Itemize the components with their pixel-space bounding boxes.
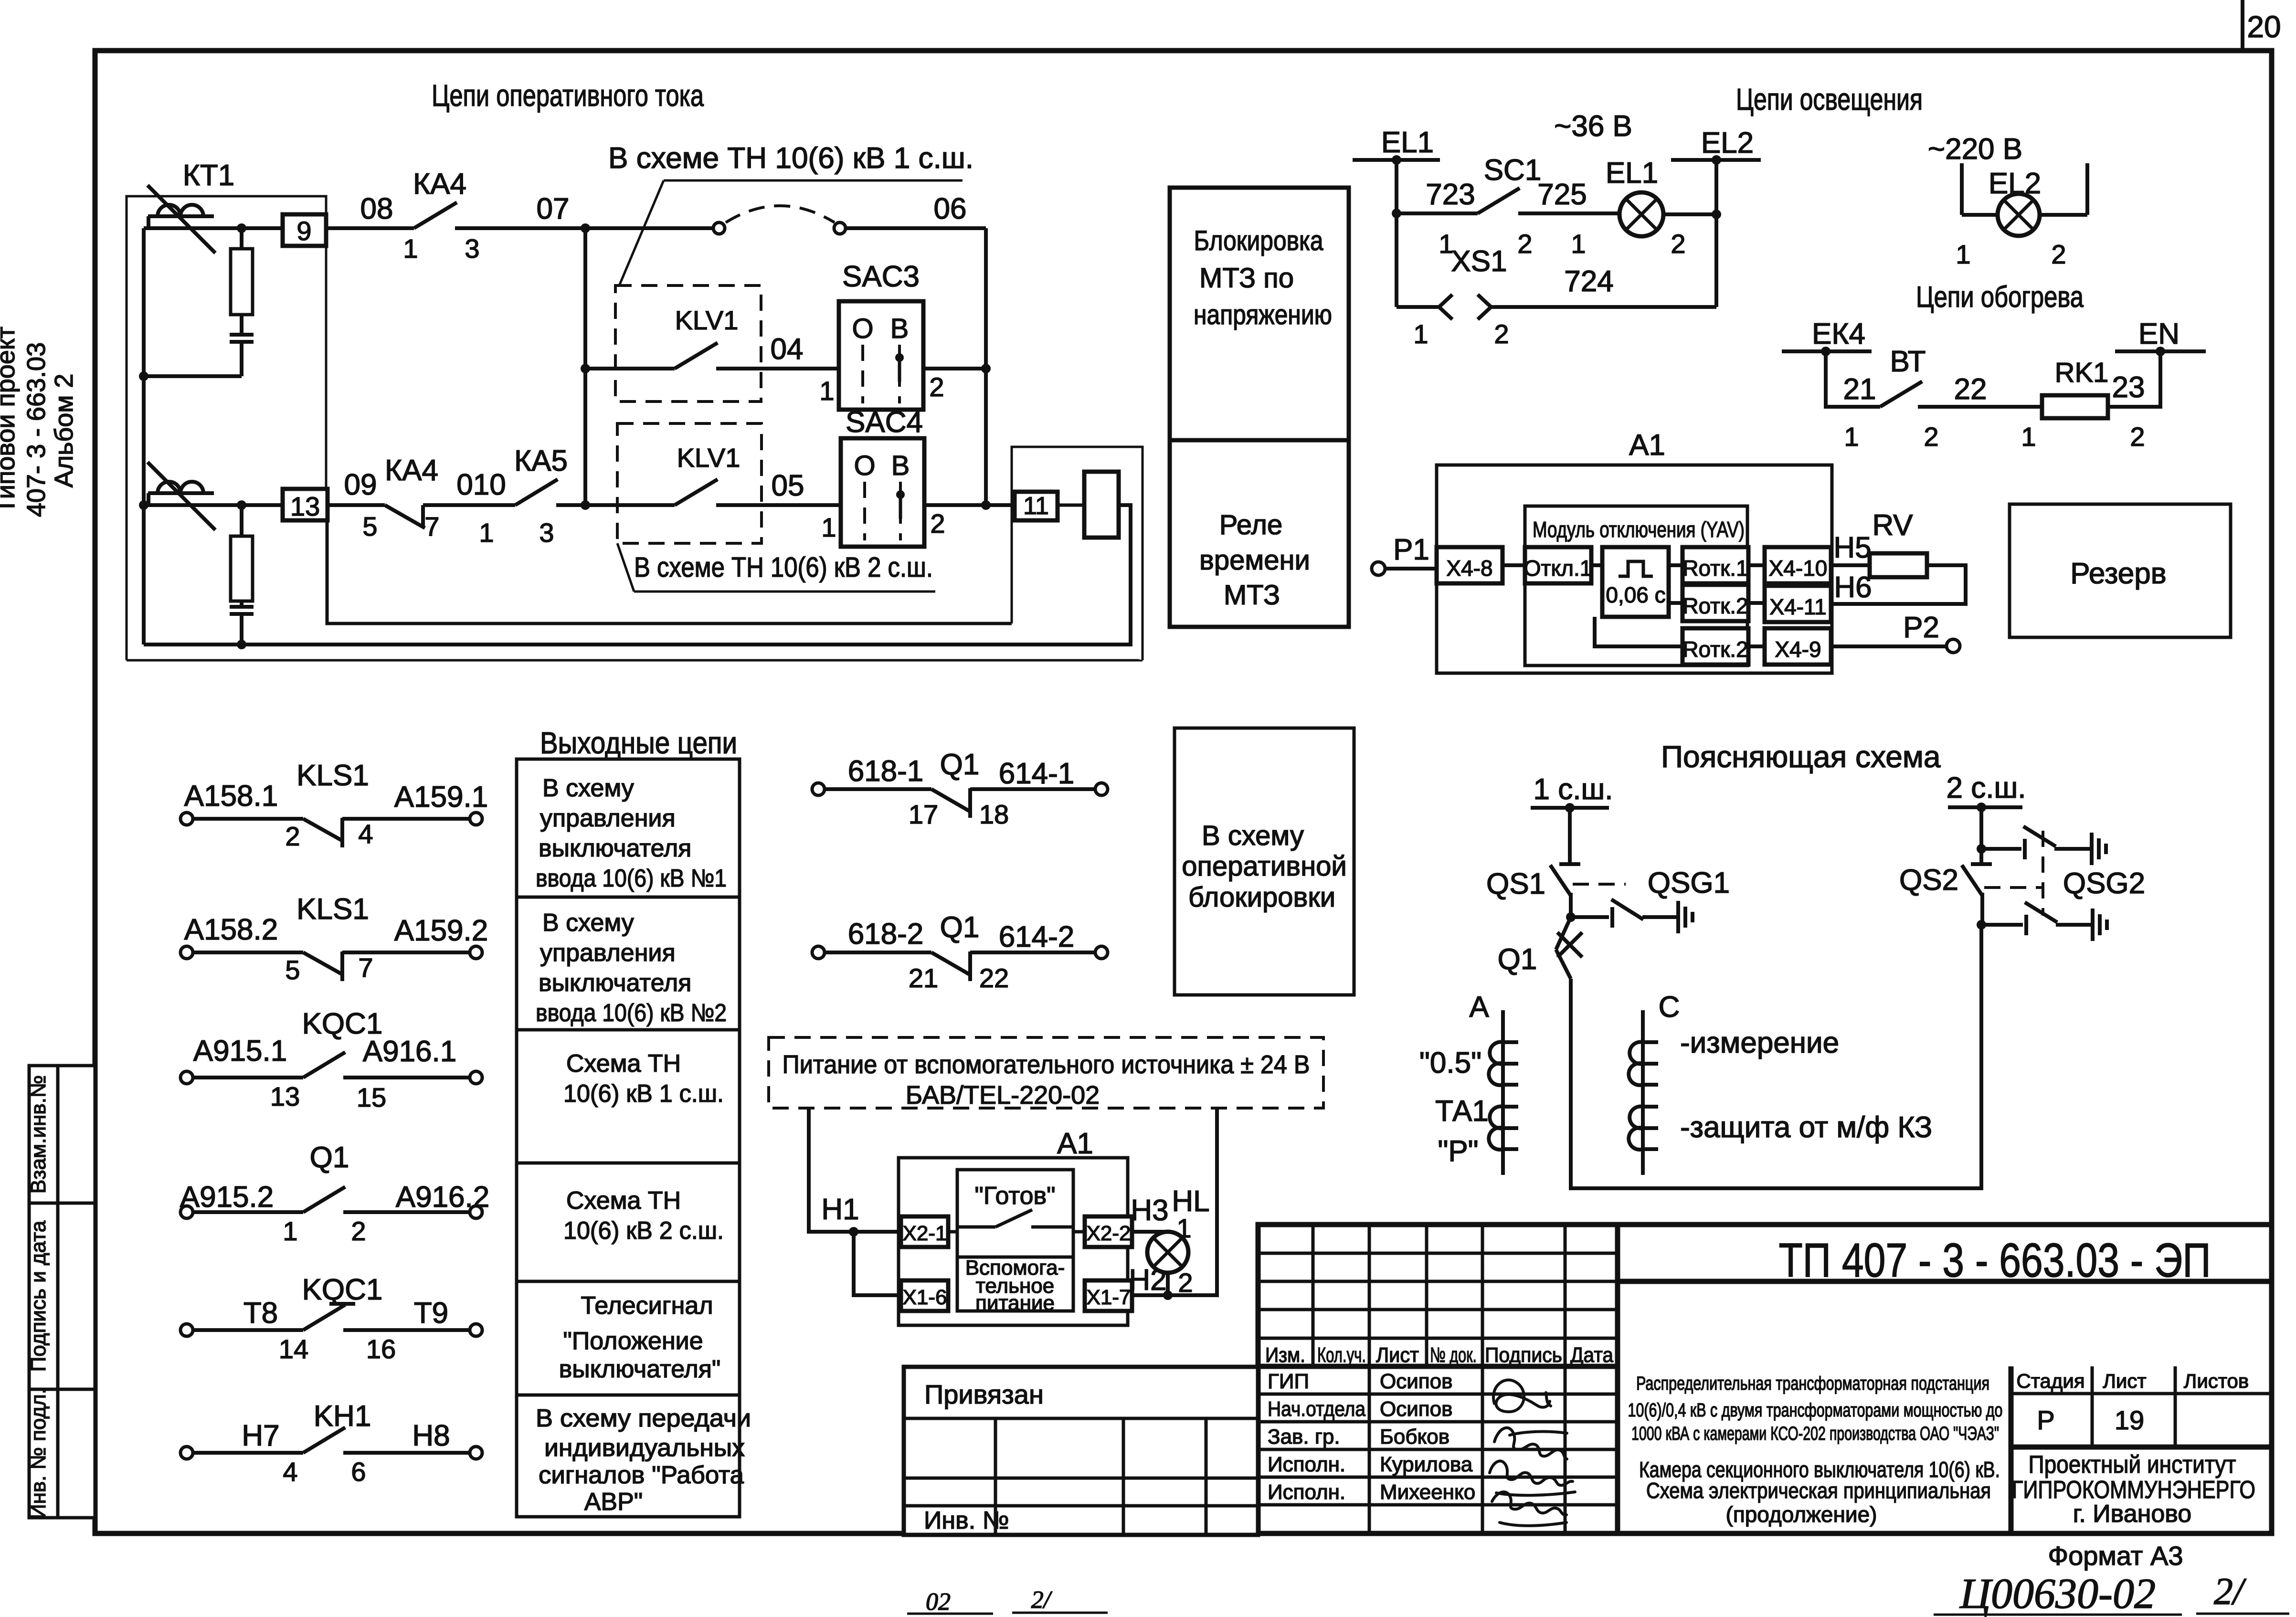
wire CT2 to terminal 13 (144, 503, 283, 507)
capacitor C of CT2 burden (230, 601, 254, 645)
svg-text:KLV1: KLV1 (677, 443, 741, 473)
terminal box Х1-7 (1085, 1280, 1132, 1311)
svg-text:2: 2 (1494, 319, 1509, 349)
svg-text:Осипов: Осипов (1380, 1397, 1452, 1421)
svg-text:22: 22 (979, 963, 1009, 993)
svg-text:Ц00630-02: Ц00630-02 (1959, 1570, 2156, 1617)
svg-text:19: 19 (2115, 1405, 2144, 1435)
svg-text:Проектный институт: Проектный институт (2029, 1451, 2236, 1479)
svg-text:010: 010 (456, 468, 506, 501)
svg-text:А158.1: А158.1 (184, 780, 278, 813)
svg-text:№ док.: № док. (1430, 1343, 1477, 1367)
rotated side text Альбом 2 (50, 374, 78, 488)
svg-text:А1: А1 (1629, 429, 1665, 462)
svg-text:1000 кВА с камерами КСО-202 пр: 1000 кВА с камерами КСО-202 производства… (1631, 1423, 1999, 1444)
svg-text:Н1: Н1 (821, 1193, 859, 1226)
svg-text:Rотк.2: Rотк.2 (1682, 637, 1748, 662)
contact KLV1 (row 05) (675, 443, 841, 505)
stage table Стадия Лист Листов (2011, 1366, 2272, 1533)
svg-text:А915.2: А915.2 (180, 1181, 274, 1214)
svg-text:5: 5 (285, 955, 300, 985)
svg-text:С: С (1659, 991, 1680, 1024)
svg-text:"Готов": "Готов" (974, 1182, 1055, 1210)
svg-text:блокировки: блокировки (1188, 882, 1335, 913)
lamp EL2 circuit (1956, 163, 2087, 269)
svg-text:КА4: КА4 (385, 454, 438, 487)
bus 2 с.ш. (1947, 772, 2026, 812)
lamp HL (1147, 1232, 1188, 1273)
wire right bus vertical 06 (984, 228, 988, 505)
changeover switch SAC4 (821, 406, 945, 547)
signature Михеенко (1492, 1492, 1566, 1526)
svg-text:~36 В: ~36 В (1554, 110, 1632, 143)
heater resistor RK1 (2021, 357, 2145, 452)
svg-text:А159.2: А159.2 (394, 914, 488, 947)
wire terminal 9 to KA4 (326, 226, 414, 230)
svg-text:2: 2 (1671, 229, 1685, 259)
svg-text:Rотк.1: Rотк.1 (1682, 556, 1748, 581)
wire bus1 down (1568, 808, 1572, 862)
contact KQC1 row (13-15) (180, 1007, 482, 1112)
dashed jumper arc (726, 206, 835, 222)
svg-text:1: 1 (1413, 319, 1428, 349)
svg-text:ВТ: ВТ (1890, 345, 1926, 378)
node EK4 bus (1782, 317, 1872, 356)
svg-text:Схема электрическая принципиал: Схема электрическая принципиальная (1646, 1478, 1991, 1503)
svg-text:А915.1: А915.1 (193, 1035, 287, 1067)
box2 text В схему управления выключателя ввода №2 (536, 909, 727, 1027)
node CT1 loop on left vertical (139, 371, 148, 381)
inner box Модуль отключения (YAV) (1525, 506, 1747, 666)
svg-text:16: 16 (366, 1334, 396, 1364)
svg-text:Q1: Q1 (1498, 943, 1537, 976)
svg-text:Формат А3: Формат А3 (2048, 1541, 2183, 1571)
wire lamp to Х1-7 (1132, 1293, 1168, 1297)
svg-text:Распределительная трансформато: Распределительная трансформаторная подст… (1636, 1373, 1989, 1394)
ground symbol QSG2 lower (2093, 909, 2107, 941)
svg-text:20: 20 (2247, 10, 2281, 44)
node EN bus (2115, 317, 2206, 356)
svg-text:Курилова: Курилова (1380, 1453, 1473, 1476)
node CT2 on left vertical (139, 500, 148, 510)
svg-text:А916.2: А916.2 (396, 1181, 490, 1214)
svg-text:(продолжение): (продолжение) (1726, 1502, 1877, 1527)
svg-text:выключателя: выключателя (539, 969, 691, 997)
svg-text:0,06 с: 0,06 с (1606, 582, 1665, 607)
svg-text:~220 В: ~220 В (1928, 133, 2022, 166)
svg-text:А1: А1 (1057, 1127, 1093, 1160)
terminal box 13 (283, 489, 328, 521)
svg-text:Н3: Н3 (1131, 1194, 1168, 1227)
wire lamp HL bottom row (1166, 1273, 1170, 1295)
svg-text:Rотк.2: Rотк.2 (1682, 593, 1748, 618)
contact Q1 (618-1/614-1) (812, 748, 1108, 829)
contact KH1 row (H7-H8) (180, 1400, 482, 1487)
wire loop to lower Rотк.2 (1595, 617, 1682, 646)
terminal Р1 (1372, 533, 1437, 575)
svg-text:1: 1 (479, 518, 494, 548)
resistor R of CT2 burden (231, 505, 253, 601)
staff name labels (1380, 1370, 1475, 1504)
svg-text:А: А (1469, 991, 1489, 1024)
resistor R of CT1 burden (231, 228, 253, 315)
svg-text:Дата: Дата (1570, 1343, 1613, 1367)
svg-text:618-1: 618-1 (848, 755, 924, 788)
svg-text:ГИП: ГИП (1268, 1370, 1309, 1393)
staff role labels (1268, 1370, 1365, 1504)
svg-text:Цепи оперативного тока: Цепи оперативного тока (432, 78, 704, 113)
svg-text:1: 1 (1844, 422, 1859, 452)
svg-text:1: 1 (819, 376, 834, 406)
rotated label Инв. № подл. (27, 1388, 50, 1519)
svg-text:КТ1: КТ1 (183, 159, 234, 192)
svg-text:напряжению: напряжению (1194, 299, 1332, 330)
current transformer ТА1 phase А (1489, 1010, 1518, 1175)
revision header labels (1265, 1343, 1613, 1367)
dashed box KLV1 lower (617, 423, 762, 543)
svg-text:управления: управления (540, 804, 676, 832)
node SAC4 output (981, 500, 991, 510)
svg-text:2: 2 (351, 1216, 366, 1246)
svg-text:В схему: В схему (1202, 820, 1304, 851)
svg-text:6: 6 (351, 1457, 366, 1487)
terminal box Откл.1 (1524, 547, 1592, 583)
svg-text:14: 14 (279, 1334, 308, 1364)
svg-text:KH1: KH1 (314, 1400, 371, 1433)
terminal box Х4-8 (1437, 547, 1502, 583)
svg-text:Исполн.: Исполн. (1268, 1453, 1345, 1476)
dashed link QS1-QSG1 (1573, 883, 1626, 886)
wire CT1 loop bottom (144, 374, 242, 378)
svg-text:В: В (890, 313, 909, 344)
contact KA4 (upper row) (403, 168, 585, 264)
function box В схему оперативной блокировки (1174, 728, 1354, 995)
svg-text:КА5: КА5 (514, 444, 568, 477)
svg-text:Кол.уч.: Кол.уч. (1317, 1343, 1366, 1367)
svg-text:5: 5 (362, 511, 377, 541)
svg-text:Подпись: Подпись (1485, 1343, 1562, 1367)
svg-text:23: 23 (2112, 371, 2145, 404)
wire CT1 to terminal 9 (144, 226, 283, 230)
svg-text:02: 02 (926, 1588, 951, 1616)
svg-text:В схеме ТН 10(6) кВ 1 с.ш.: В схеме ТН 10(6) кВ 1 с.ш. (608, 142, 973, 175)
disconnector QS2 (1899, 864, 1992, 925)
node CT2 chain bottom (237, 640, 246, 649)
wire 07 to jumper (585, 226, 713, 230)
ground symbol QSG1 (1678, 901, 1693, 933)
svg-text:Х4-10: Х4-10 (1769, 556, 1828, 581)
terminal box Х2-2 (1085, 1216, 1132, 1247)
wire to KLV1 contact row 2 (585, 503, 675, 507)
current transformer CT2 (148, 462, 215, 530)
svg-text:Н8: Н8 (412, 1419, 450, 1452)
svg-text:2: 2 (285, 821, 300, 851)
svg-text:О: О (852, 313, 873, 344)
wire H1 drop from supply box (809, 1108, 901, 1232)
svg-text:питание: питание (975, 1291, 1055, 1315)
node CT2 chain top (237, 500, 246, 510)
wire bus2 down (1979, 807, 1983, 862)
contact KQC1 row (T8-T9) (180, 1273, 482, 1364)
wire Rотк.2 to Х4-11 (1748, 601, 1765, 605)
wire terminal 11 to relay coil (1058, 504, 1084, 507)
svg-text:QS2: QS2 (1899, 864, 1958, 897)
svg-text:07: 07 (537, 192, 570, 225)
svg-text:А158.2: А158.2 (184, 913, 278, 946)
svg-text:724: 724 (1564, 265, 1613, 298)
rotated label Подпись и дата (27, 1220, 50, 1372)
resistor box Rотк.2 lower (1682, 628, 1748, 665)
svg-text:Q1: Q1 (940, 748, 980, 781)
relay enclosure box (1012, 447, 1143, 660)
node upper QSG2 branch (1977, 844, 1986, 854)
svg-text:О: О (854, 450, 875, 481)
staff rows grid (1258, 1366, 1618, 1533)
circuit breaker Q1 (1498, 917, 1582, 979)
node CT1 chain top (237, 223, 246, 233)
wire pulse to Rотк.1 (1669, 563, 1682, 567)
reserve box Резерв (2010, 504, 2231, 637)
dashed box KLV1 upper (615, 285, 761, 402)
svg-text:ТП 407 - 3 - 663.03 - ЭП: ТП 407 - 3 - 663.03 - ЭП (1779, 1234, 2211, 1287)
current transformer CT1 (148, 185, 215, 253)
node EL2 drop (1712, 210, 1721, 219)
terminal box 11 (1015, 492, 1058, 520)
svg-text:SAC3: SAC3 (842, 260, 920, 293)
node QS1 bottom (1566, 912, 1576, 922)
svg-text:В схему передачи: В схему передачи (536, 1405, 751, 1432)
svg-text:1: 1 (1571, 229, 1586, 259)
svg-text:Подпись и дата: Подпись и дата (27, 1220, 50, 1372)
svg-text:АВР": АВР" (584, 1488, 643, 1516)
svg-text:"Р": "Р" (1438, 1135, 1478, 1168)
contact KLS1 row 2 (180, 893, 488, 985)
svg-text:Блокировка: Блокировка (1194, 225, 1324, 256)
svg-text:"Положение: "Положение (563, 1327, 703, 1355)
capacitor C of CT1 burden (230, 315, 254, 376)
svg-text:Типовой проект: Типовой проект (0, 327, 20, 514)
svg-text:индивидуальных: индивидуальных (544, 1434, 745, 1462)
handwritten marks bottom left (907, 1586, 1108, 1616)
wire Х4-10 to RV (1831, 563, 1870, 567)
signature Бобков (1494, 1428, 1567, 1459)
sheet number box 20 top right (2243, 0, 2281, 51)
svg-text:времени: времени (1199, 545, 1310, 576)
resistor box Rотк.1 (1682, 547, 1748, 583)
svg-text:выключателя: выключателя (539, 835, 691, 862)
wire RV loop to Х4-11 (1831, 565, 1966, 604)
svg-text:614-1: 614-1 (999, 757, 1075, 790)
svg-text:9: 9 (296, 216, 311, 246)
wire EL1 bus down (1395, 160, 1398, 307)
svg-text:1: 1 (403, 233, 418, 264)
enclosure line from box 13 to relay box (327, 520, 1012, 624)
wire EK4 down (1826, 351, 1880, 407)
wire to SC1 (1397, 211, 1478, 215)
svg-text:МТЗ: МТЗ (1224, 580, 1280, 611)
jumper terminal left (713, 222, 725, 234)
svg-text:Питание от вспомогательного ис: Питание от вспомогательного источника ± … (783, 1050, 1310, 1079)
contact KA5 (479, 444, 585, 548)
svg-text:Лист: Лист (2103, 1370, 2146, 1392)
svg-text:21: 21 (1843, 373, 1876, 406)
earthing switch QSG1 (1571, 867, 1730, 928)
svg-text:7: 7 (424, 511, 439, 541)
wire jumper to 06 corner (846, 226, 986, 230)
svg-text:Зав. гр.: Зав. гр. (1268, 1425, 1340, 1448)
svg-text:2: 2 (2051, 239, 2066, 269)
svg-text:Т8: Т8 (243, 1297, 278, 1330)
wire relay coil return (144, 505, 1131, 645)
project description text (1628, 1373, 2003, 1444)
title block main frame (1258, 1225, 2272, 1533)
svg-text:Взам.инв.№: Взам.инв.№ (27, 1075, 50, 1194)
svg-text:БАВ/TEL-220-02: БАВ/TEL-220-02 (906, 1081, 1100, 1110)
wire SAC3 to right bus (923, 367, 986, 370)
wire XS1 row left (1397, 305, 1439, 309)
svg-text:Выходные цепи: Выходные цепи (540, 726, 737, 760)
svg-text:09: 09 (344, 468, 377, 501)
svg-text:Р: Р (2037, 1405, 2054, 1435)
contact Q1 (618-2/614-2) (812, 911, 1108, 993)
wire XS1 to EL2 drop (1491, 305, 1716, 309)
svg-text:ТА1: ТА1 (1435, 1095, 1489, 1128)
svg-text:3: 3 (465, 233, 479, 264)
node SAC3 output (981, 364, 991, 373)
svg-text:Q1: Q1 (940, 911, 980, 944)
jumper terminal right (834, 222, 846, 234)
svg-text:EL2: EL2 (1701, 127, 1754, 159)
svg-text:EN: EN (2138, 317, 2180, 350)
wire Rотк.1 to Х4-10 (1748, 563, 1765, 567)
wire Q1 down and along bottom (1571, 925, 1981, 1188)
relay coil (1084, 472, 1119, 538)
earthing switch QSG2 lower (1981, 867, 2145, 935)
auxiliary supply box Вспомогательное питание (957, 1256, 1073, 1315)
svg-text:КА4: КА4 (413, 168, 466, 201)
output description column boxes (517, 759, 740, 1517)
box1 text В схему управления выключателя ввода №1 (536, 774, 727, 892)
svg-text:Телесигнал: Телесигнал (581, 1292, 713, 1320)
box4 text Схема ТН 2 с.ш. (563, 1187, 724, 1245)
wire Готов to Х2-2 (1073, 1230, 1085, 1234)
svg-text:Цепи освещения: Цепи освещения (1736, 82, 1923, 116)
node SC1 row (1392, 209, 1401, 218)
disconnector QS1 (1486, 864, 1580, 917)
svg-text:XS1: XS1 (1451, 245, 1507, 278)
handwritten inventory number (1934, 1570, 2289, 1617)
svg-text:15: 15 (357, 1082, 386, 1112)
svg-text:ЕК4: ЕК4 (1812, 317, 1865, 350)
svg-text:KLS1: KLS1 (296, 759, 369, 792)
svg-text:Инв. № подл.: Инв. № подл. (27, 1388, 50, 1519)
svg-text:QS1: QS1 (1486, 867, 1545, 900)
dashed supply box Питание от вспомогательного источника (769, 1037, 1323, 1110)
svg-text:Схема ТН: Схема ТН (566, 1050, 681, 1078)
svg-text:2: 2 (1517, 229, 1532, 259)
long bottom enclosure line (127, 659, 1143, 662)
sheet description text (1639, 1457, 2000, 1527)
rotated side text Типовой проект (0, 327, 20, 514)
svg-text:Схема ТН: Схема ТН (566, 1187, 681, 1215)
svg-text:13: 13 (290, 491, 320, 521)
svg-text:SC1: SC1 (1484, 154, 1542, 187)
changeover switch SAC3 (819, 260, 944, 410)
svg-text:А159.1: А159.1 (394, 781, 488, 814)
svg-text:2 с.ш.: 2 с.ш. (1947, 772, 2026, 804)
svg-text:Х1-7: Х1-7 (1087, 1286, 1131, 1309)
pulse timer block 0,06 с (1602, 547, 1669, 617)
svg-text:Цепи обогрева: Цепи обогрева (1916, 281, 2084, 314)
svg-text:оперативной: оперативной (1182, 851, 1347, 882)
revision table grid (1258, 1225, 2272, 1366)
node KLV1 row 1 (581, 364, 590, 373)
svg-text:1: 1 (821, 512, 836, 542)
svg-text:614-2: 614-2 (999, 920, 1075, 953)
current transformer ТА1 phase С (1629, 1010, 1658, 1175)
svg-text:Привязан: Привязан (924, 1379, 1044, 1409)
wire SAC4 to right bus (924, 503, 1015, 507)
svg-text:1: 1 (2021, 422, 2036, 452)
signature Курилова (1490, 1461, 1575, 1495)
svg-text:Стадия: Стадия (2016, 1370, 2084, 1392)
contact KLS1 row 1 (180, 759, 488, 851)
wire Х4-9 to Р2 (1831, 645, 1947, 648)
wire Х4-8 to Откл.1 (1502, 563, 1525, 567)
resistor box Rотк.2 (1682, 585, 1748, 621)
svg-text:Инв. №: Инв. № (924, 1507, 1009, 1534)
svg-text:06: 06 (934, 192, 967, 225)
device box А1 auxiliary (899, 1158, 1128, 1325)
wire to KLV1 contact row 1 (585, 367, 675, 370)
terminal box Х4-10 (1765, 547, 1831, 583)
node H1 branch (849, 1227, 858, 1237)
svg-text:QSG2: QSG2 (2063, 867, 2145, 900)
svg-text:10(6)/0,4 кВ с двумя трансформ: 10(6)/0,4 кВ с двумя трансформаторами мо… (1628, 1400, 2003, 1421)
svg-text:Михеенко: Михеенко (1380, 1480, 1475, 1504)
terminal box Х1-6 (901, 1280, 948, 1311)
node EL1 supply bus (1353, 126, 1440, 165)
svg-text:ввода 10(6) кВ №1: ввода 10(6) кВ №1 (536, 865, 727, 892)
rotated label Взам.инв.№ (27, 1075, 50, 1194)
svg-text:1: 1 (1956, 239, 1970, 269)
svg-text:Q1: Q1 (310, 1141, 349, 1174)
svg-text:4: 4 (283, 1457, 297, 1487)
svg-text:2: 2 (929, 372, 944, 402)
thermostat contact ВТ (1844, 345, 2042, 452)
svg-text:1: 1 (283, 1216, 297, 1246)
svg-text:RV: RV (1872, 509, 1913, 542)
svg-text:Исполн.: Исполн. (1268, 1480, 1345, 1504)
earthing switch QSG2 upper (1981, 826, 2106, 865)
svg-text:KLV1: KLV1 (675, 305, 739, 335)
wire Х2-2 to lamp HL (1132, 1232, 1168, 1232)
svg-text:Модуль отключения (YAV): Модуль отключения (YAV) (1533, 517, 1745, 542)
svg-text:2: 2 (930, 508, 945, 539)
svg-text:А916.1: А916.1 (363, 1035, 457, 1068)
wire lamp EL1 to EL2 bus (1663, 212, 1716, 216)
svg-text:Н2: Н2 (1129, 1264, 1166, 1297)
svg-text:4: 4 (358, 819, 373, 849)
wire left loop vertical (142, 228, 146, 645)
svg-text:управления: управления (540, 939, 676, 967)
wire Х2-1 to Готов (948, 1230, 957, 1234)
signature Осипов (1493, 1380, 1551, 1412)
node lamp bottom (1163, 1290, 1173, 1300)
switch SC1 (1439, 154, 1619, 259)
svg-text:13: 13 (270, 1081, 300, 1111)
bus 1 с.ш. (1531, 773, 1613, 813)
